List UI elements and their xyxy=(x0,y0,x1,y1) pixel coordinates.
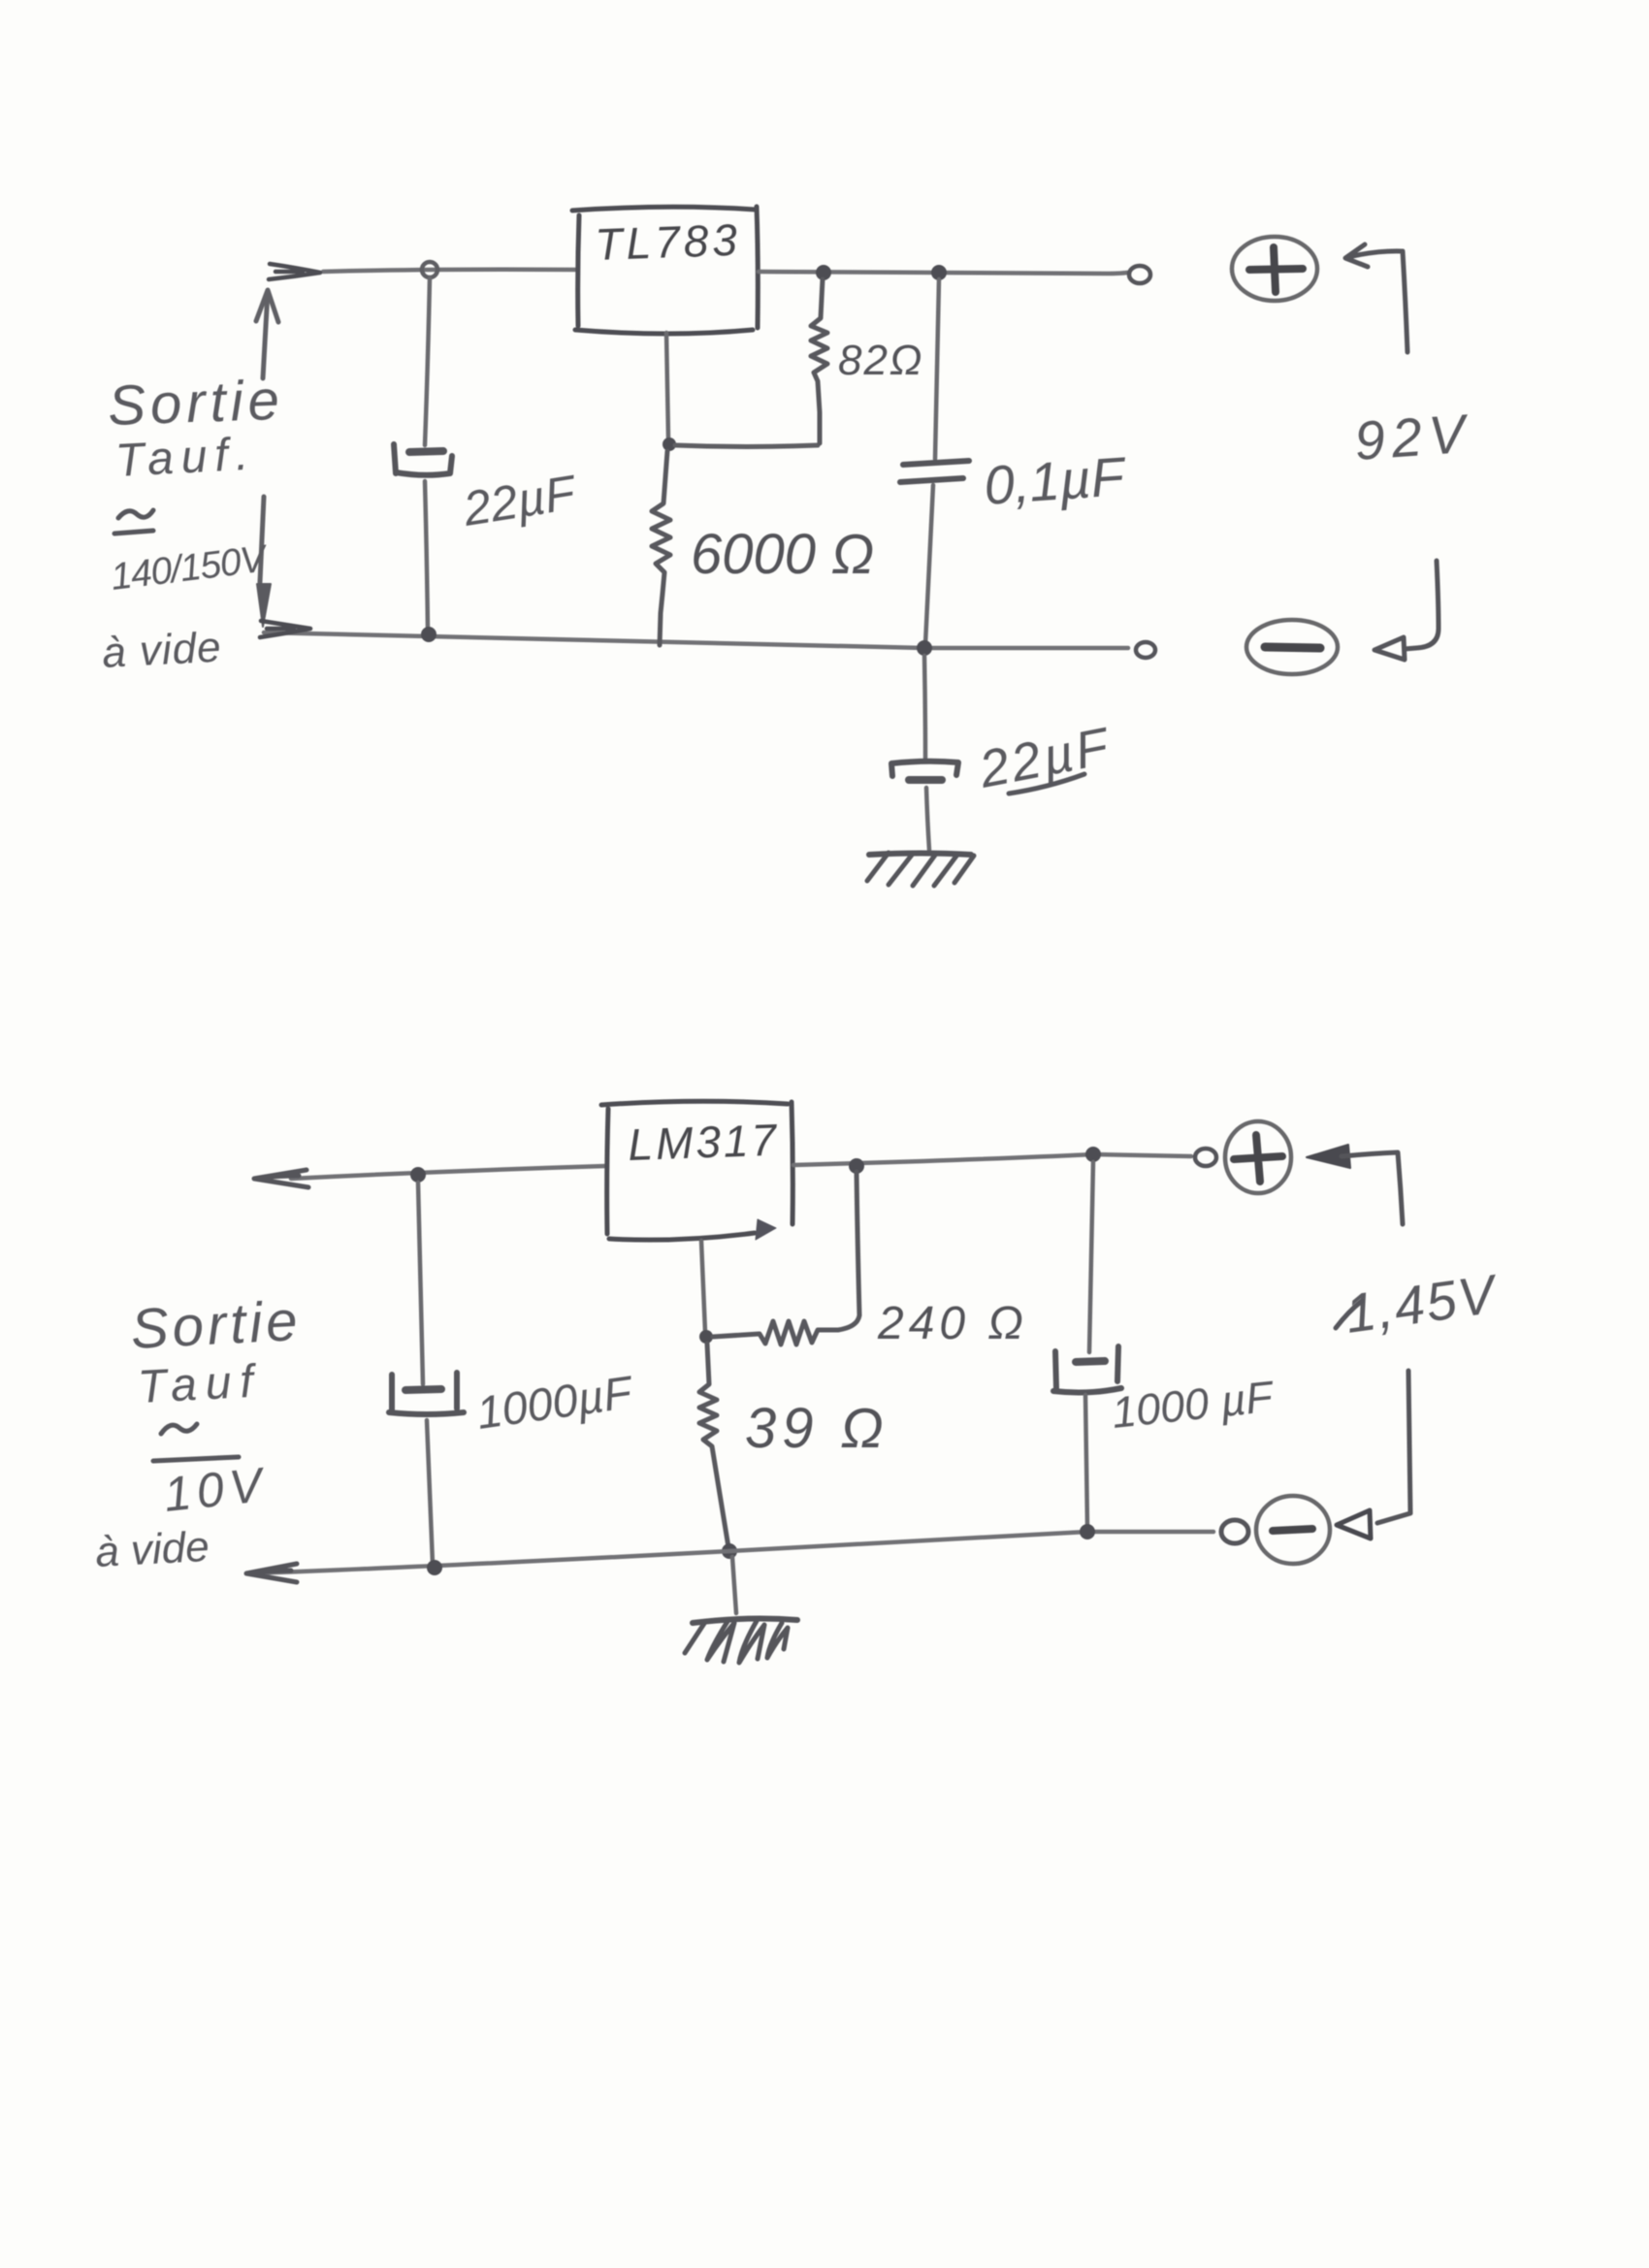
capacitor C 22uF (output, to ground) : wire down from bottom rail xyxy=(924,656,925,759)
capacitor C 1000uF (output) cup xyxy=(1053,1346,1121,1392)
capacitor C 1000uF (input): wire to bottom rail xyxy=(427,1420,433,1564)
svg-text:82Ω: 82Ω xyxy=(838,337,923,384)
wire: bottom rail (circuit 2 return) xyxy=(250,1532,1213,1573)
svg-text:Sortie: Sortie xyxy=(107,369,285,437)
terminal: output - small circle xyxy=(1136,642,1155,658)
input arrow (bottom left, circuit 2) xyxy=(246,1564,297,1582)
svg-text:1000µF: 1000µF xyxy=(473,1366,636,1439)
svg-text:140/150V: 140/150V xyxy=(109,537,272,599)
svg-text:Tauf: Tauf xyxy=(137,1355,263,1413)
svg-text:à vide: à vide xyxy=(101,624,223,677)
wire: TL783 OUT to output terminal (top rail right) xyxy=(759,272,1127,274)
capacitor C 1000uF (input) plate xyxy=(405,1389,441,1390)
node: junction dot on top rail at 0.1uF xyxy=(931,265,947,280)
node: open circle at 22uF tap on top rail xyxy=(422,262,437,277)
node: junction dot on top rail at 82ohm xyxy=(816,265,831,280)
label: ~ sign (circuit 2) xyxy=(161,1424,197,1434)
capacitor C 22uF (output) cup plate xyxy=(891,761,958,776)
svg-text:LM317: LM317 xyxy=(628,1115,780,1170)
pin: LM317 ADJ lead down xyxy=(701,1241,705,1332)
resistor R 6000ohm (ADJ-GND) zigzag xyxy=(652,451,670,645)
symbol: circled + (positive output) xyxy=(1232,237,1317,301)
ground symbol (circuit 1) xyxy=(869,854,971,856)
ground symbol (circuit 2) xyxy=(693,1619,797,1623)
resistor R 82ohm (OUT-ADJ) zigzag xyxy=(811,279,827,443)
node: junction dot ADJ xyxy=(663,437,676,451)
node: junction dot bottom rail at input cap xyxy=(427,1560,442,1575)
wire: top rail input segment (transformer to TL783 IN) xyxy=(323,270,576,272)
svg-text:0,1µF: 0,1µF xyxy=(982,445,1128,516)
capacitor C 1000uF (output) plate xyxy=(1076,1361,1105,1362)
resistor R 39ohm (ADJ-GND) zigzag xyxy=(699,1344,728,1547)
svg-text:1000 µF: 1000 µF xyxy=(1110,1372,1277,1438)
terminal: output + small circle (circuit 2) xyxy=(1195,1149,1216,1166)
svg-text:22µF: 22µF xyxy=(459,465,581,536)
node: junction dot bottom rail at ground (circuit 2) xyxy=(722,1543,737,1559)
input arrow (top left, phase input) xyxy=(269,264,320,279)
IC U2: LM317 regulator box xyxy=(601,1101,792,1240)
wire: ADJ node to 82ohm bottom xyxy=(675,445,818,447)
wire: LM317 OUT to + terminal (top rail right) xyxy=(793,1154,1191,1165)
capacitor C 22uF (input filter) : wire from top rail xyxy=(425,278,430,445)
symbol: circled - (circuit 2) xyxy=(1256,1496,1330,1564)
arrow: meter hook at - output xyxy=(1405,561,1439,649)
wire: top rail input segment (transformer to LM317 IN) xyxy=(291,1166,605,1179)
terminal: output - small circle (circuit 2) xyxy=(1221,1520,1248,1543)
capacitor C 22uF cup (-) xyxy=(394,444,452,475)
svg-text:6000 Ω: 6000 Ω xyxy=(691,523,874,586)
pin: TL783 ADJ lead down xyxy=(666,333,668,438)
capacitor C 22uF (output): wire to ground xyxy=(926,788,929,850)
arrow: meter hook at + output xyxy=(1345,244,1407,352)
arrow: meter hook at - (circuit 2) xyxy=(1377,1371,1410,1523)
capacitor C 1000uF (input) cup xyxy=(389,1373,464,1414)
svg-text:TL783: TL783 xyxy=(595,214,742,270)
label: ~ approx sign xyxy=(118,510,153,518)
capacitor C 22uF plate (+) xyxy=(409,451,443,452)
node: junction dot 22uF at bottom rail xyxy=(421,627,436,642)
input arrow (bottom left, return input) xyxy=(260,621,310,637)
svg-text:1,45V: 1,45V xyxy=(1342,1262,1503,1345)
capacitor C 0.1uF plates xyxy=(903,461,969,465)
node: junction dot ADJ (circuit 2) xyxy=(699,1330,713,1344)
IC U1: TL783 regulator box xyxy=(572,207,758,334)
measure arrow: vertical double arrow for input voltage xyxy=(260,291,268,582)
svg-text:240 Ω: 240 Ω xyxy=(877,1298,1028,1349)
input arrow (top left, circuit 2) xyxy=(254,1170,308,1187)
symbol: circled + (circuit 2) xyxy=(1225,1121,1291,1193)
svg-text:10V: 10V xyxy=(161,1457,270,1522)
svg-text:92V: 92V xyxy=(1352,403,1473,471)
capacitor C 0.1uF : wire to bottom rail xyxy=(925,485,933,644)
node: junction dot at 240ohm tap xyxy=(849,1158,864,1174)
svg-text:à vide: à vide xyxy=(94,1523,210,1576)
capacitor C 1000uF (output) : wire down from top rail node xyxy=(1089,1162,1093,1352)
arrow: meter hook at + (circuit 2) xyxy=(1307,1145,1350,1168)
svg-text:39 Ω: 39 Ω xyxy=(745,1397,889,1460)
capacitor C 1000uF (input) : wire from rail xyxy=(418,1183,423,1384)
capacitor C 0.1uF : wire from top rail xyxy=(935,279,939,459)
svg-text:Sortie: Sortie xyxy=(129,1289,303,1361)
wire: bottom rail (circuit 1 return) xyxy=(264,632,1128,648)
svg-text:Tauf.: Tauf. xyxy=(114,428,258,487)
capacitor C 22uF : wire to bottom rail xyxy=(425,481,428,631)
wire: node to ground symbol xyxy=(732,1557,736,1613)
capacitor C 1000uF (output): wire to bottom rail xyxy=(1085,1395,1087,1527)
terminal: output + small circle xyxy=(1129,266,1150,283)
wire: 240ohm right end up to top rail node xyxy=(838,1172,859,1330)
resistor R 240ohm (OUT-ADJ) horizontal zigzag xyxy=(713,1321,838,1345)
node: junction dot at output 1000uF tap xyxy=(1085,1147,1101,1162)
node: junction dot bottom rail at 0.1uF/22uF xyxy=(917,640,932,656)
symbol: circled - (negative output) xyxy=(1246,620,1338,674)
node: junction dot bottom rail at output cap xyxy=(1080,1524,1095,1539)
node: junction dot at 1000uF input tap xyxy=(410,1167,426,1183)
